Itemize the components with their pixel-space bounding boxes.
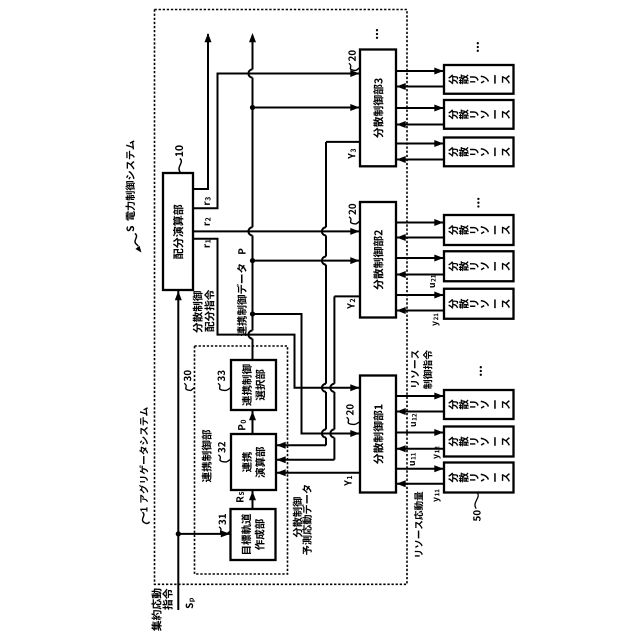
wire pair: control unit <-> resource #4 bbox=[396, 219, 444, 241]
label ~31 bbox=[219, 514, 231, 534]
ellipsis above resource group3 bbox=[477, 42, 479, 52]
label 分散制御配分指令 (by U10 output) bbox=[193, 290, 215, 333]
label y21 bbox=[433, 313, 440, 325]
label ~33 bbox=[218, 370, 231, 390]
label Y1 bbox=[344, 476, 352, 486]
label r1 bbox=[204, 240, 210, 248]
label リソース制御指令 bbox=[411, 350, 432, 389]
ellipsis above unit3 bbox=[376, 29, 378, 39]
label 連携制御部 (box30 name) bbox=[202, 430, 212, 482]
wire pair: control unit <-> resource #8 bbox=[396, 429, 444, 452]
junction dots on P bus bbox=[250, 105, 255, 317]
label 集約応動指令 bbox=[151, 589, 172, 631]
wire Sp branch to U31 bbox=[178, 530, 230, 537]
label ~30 bbox=[184, 370, 195, 390]
label r2 bbox=[204, 218, 210, 226]
block 分散リソース (distributed resource) #1 bbox=[444, 65, 514, 94]
block U31 目標軌道作成部 (target trajectory creation unit) bbox=[231, 509, 276, 560]
label Y2 bbox=[347, 299, 355, 309]
wire P branch to U20-2 second input bbox=[253, 257, 360, 264]
wire Y2 feedback: U20-2 to U32 input bbox=[277, 296, 361, 463]
block U10 配分演算部 (distribution computing unit) bbox=[163, 173, 193, 290]
wire Sp aggregate response command input bbox=[175, 291, 182, 610]
ellipsis between resource groups 3-2 bbox=[477, 198, 479, 208]
label 50~ (reference for resources) bbox=[473, 493, 481, 521]
label u12 bbox=[411, 414, 417, 427]
label 分散制御予測応動データ (by U32) bbox=[293, 485, 312, 555]
wire P branch to U20-1 second input bbox=[253, 314, 360, 437]
wire Y3 feedback: U20-3 to U32 input, riser with hops bbox=[277, 142, 361, 449]
block 分散リソース (distributed resource) #2 bbox=[444, 100, 514, 129]
block U33 連携制御選択部 (cooperation control selection unit) bbox=[231, 360, 276, 410]
wire pair: control unit <-> resource #1 bbox=[396, 68, 444, 91]
label リソース応動量 bbox=[414, 492, 423, 557]
block 分散リソース (distributed resource) #7 bbox=[444, 390, 514, 419]
label Sp bbox=[186, 598, 195, 608]
wire pair: control unit <-> resource #9 bbox=[396, 465, 444, 487]
wire pair: control unit <-> resource #7 bbox=[396, 393, 444, 416]
wire r3: U10 to U20-3 first input bbox=[193, 70, 360, 208]
label ~10 bbox=[175, 145, 183, 172]
wire P0: U32 to U33 bbox=[249, 411, 256, 434]
label y11 bbox=[434, 489, 441, 501]
block 分散リソース (distributed resource) #9 bbox=[444, 463, 514, 493]
block U32 連携演算部 (cooperation computing unit) bbox=[231, 434, 276, 490]
label ~32 bbox=[218, 442, 231, 462]
label Y3 bbox=[348, 149, 356, 159]
dashed boundary: aggregator system 1 / power control system S bbox=[155, 10, 408, 585]
block 分散リソース (distributed resource) #3 bbox=[444, 138, 514, 167]
wire pair: control unit <-> resource #6 bbox=[396, 292, 444, 315]
block 分散リソース (distributed resource) #6 bbox=[444, 289, 514, 319]
wire r2: U10 to U20-2 first input bbox=[193, 228, 360, 235]
label ~20 for unit1 bbox=[346, 404, 360, 424]
label S 電力制御システム with leader arrow bbox=[125, 140, 141, 252]
label y12 bbox=[434, 446, 441, 459]
wire P bus: U33 output up, with hops, to further units arrow bbox=[248, 33, 256, 360]
ellipsis between resource groups 2-1 bbox=[480, 366, 482, 376]
wire Rs: U31 to U32 bbox=[249, 491, 256, 509]
label ~20 for unit2 bbox=[349, 204, 360, 224]
label ~20 for unit3 bbox=[348, 50, 359, 70]
wire P branch to U20-3 second input bbox=[253, 104, 360, 111]
label r3 bbox=[204, 197, 210, 205]
wire pair: control unit <-> resource #3 bbox=[396, 140, 444, 163]
block U20 分散制御部3 (distributed control unit 3) bbox=[360, 50, 396, 167]
block 分散リソース (distributed resource) #8 bbox=[444, 427, 514, 457]
wire pair: control unit <-> resource #5 bbox=[396, 255, 444, 279]
wire pair: control unit <-> resource #2 bbox=[396, 105, 444, 129]
wire: output to further units (upward arrow from U10 r-output) bbox=[193, 33, 212, 190]
wire r1: U10 to U20-1 first input bbox=[193, 239, 360, 392]
label 1 アグリゲータシステム with leader squiggle bbox=[139, 407, 149, 523]
block U20 分散制御部2 (distributed control unit 2) bbox=[360, 202, 396, 318]
label u11 bbox=[410, 453, 416, 465]
label u21 bbox=[430, 275, 436, 287]
dashed box 30 cooperation control unit boundary bbox=[195, 346, 288, 574]
block 分散リソース (distributed resource) #5 bbox=[444, 251, 514, 281]
block U20 分散制御部1 (distributed control unit 1) bbox=[360, 376, 396, 493]
label Rs bbox=[236, 492, 244, 502]
label 連携制御データ P bbox=[237, 249, 247, 337]
block 分散リソース (distributed resource) #4 bbox=[444, 215, 514, 245]
label P0 bbox=[238, 420, 246, 430]
wire Y1 feedback: U20-1 to U32 input bbox=[277, 469, 361, 476]
